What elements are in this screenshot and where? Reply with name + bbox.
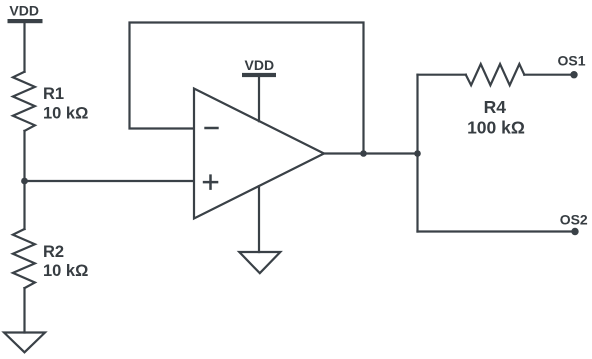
- wire VDD2 to op-amp positive supply pin: [258, 77, 260, 121]
- svg-text:VDD: VDD: [9, 3, 39, 19]
- svg-text:R4: R4: [484, 97, 507, 117]
- wire R1 to node A: [23, 131, 25, 181]
- wire R4 to OS1 terminal: [524, 74, 574, 76]
- node A junction dot: [21, 178, 28, 185]
- resistor R4: [466, 64, 525, 85]
- wire output branch vertical: [416, 75, 418, 232]
- op-amp U1 noninverting input plus sign: [203, 174, 219, 190]
- svg-text:OS1: OS1: [557, 52, 585, 68]
- wire op-amp output: [324, 152, 418, 154]
- svg-text:OS2: OS2: [560, 212, 588, 228]
- wire node A to R2: [23, 181, 25, 229]
- node feedback junction dot on output: [360, 150, 367, 157]
- node OS2 terminal dot: [571, 228, 578, 235]
- wire node A to op-amp noninverting input: [25, 180, 194, 182]
- ground symbol (bottom-left): [4, 333, 45, 353]
- svg-text:100 kΩ: 100 kΩ: [467, 117, 525, 137]
- wire R2 to ground: [23, 288, 25, 332]
- node OS1 terminal dot: [570, 71, 577, 78]
- resistor R2 value label: [43, 243, 88, 280]
- wire feedback loop (output to inverting input): [130, 23, 364, 154]
- wire branch to OS2 terminal: [418, 230, 576, 232]
- wire branch to R4: [418, 74, 466, 76]
- resistor R1: [13, 72, 35, 131]
- resistor R4 value label: [467, 97, 525, 137]
- svg-text:R1: R1: [43, 85, 64, 103]
- ground symbol (below op-amp): [239, 252, 280, 273]
- svg-text:R2: R2: [43, 243, 64, 261]
- op-amp U1 inverting input minus sign: [204, 127, 218, 130]
- wire op-amp negative supply pin to ground: [258, 186, 260, 252]
- wire VDD1 to R1: [23, 23, 25, 71]
- svg-text:10 kΩ: 10 kΩ: [43, 105, 88, 123]
- svg-text:VDD: VDD: [245, 57, 275, 73]
- op-amp U1 triangle: [194, 89, 324, 219]
- power VDD2 bar symbol: [242, 73, 276, 77]
- svg-text:10 kΩ: 10 kΩ: [43, 262, 88, 280]
- resistor R2: [13, 229, 35, 288]
- node output branch junction dot: [414, 150, 421, 157]
- power VDD1 bar symbol: [8, 19, 43, 23]
- resistor R1 value label: [43, 85, 88, 122]
